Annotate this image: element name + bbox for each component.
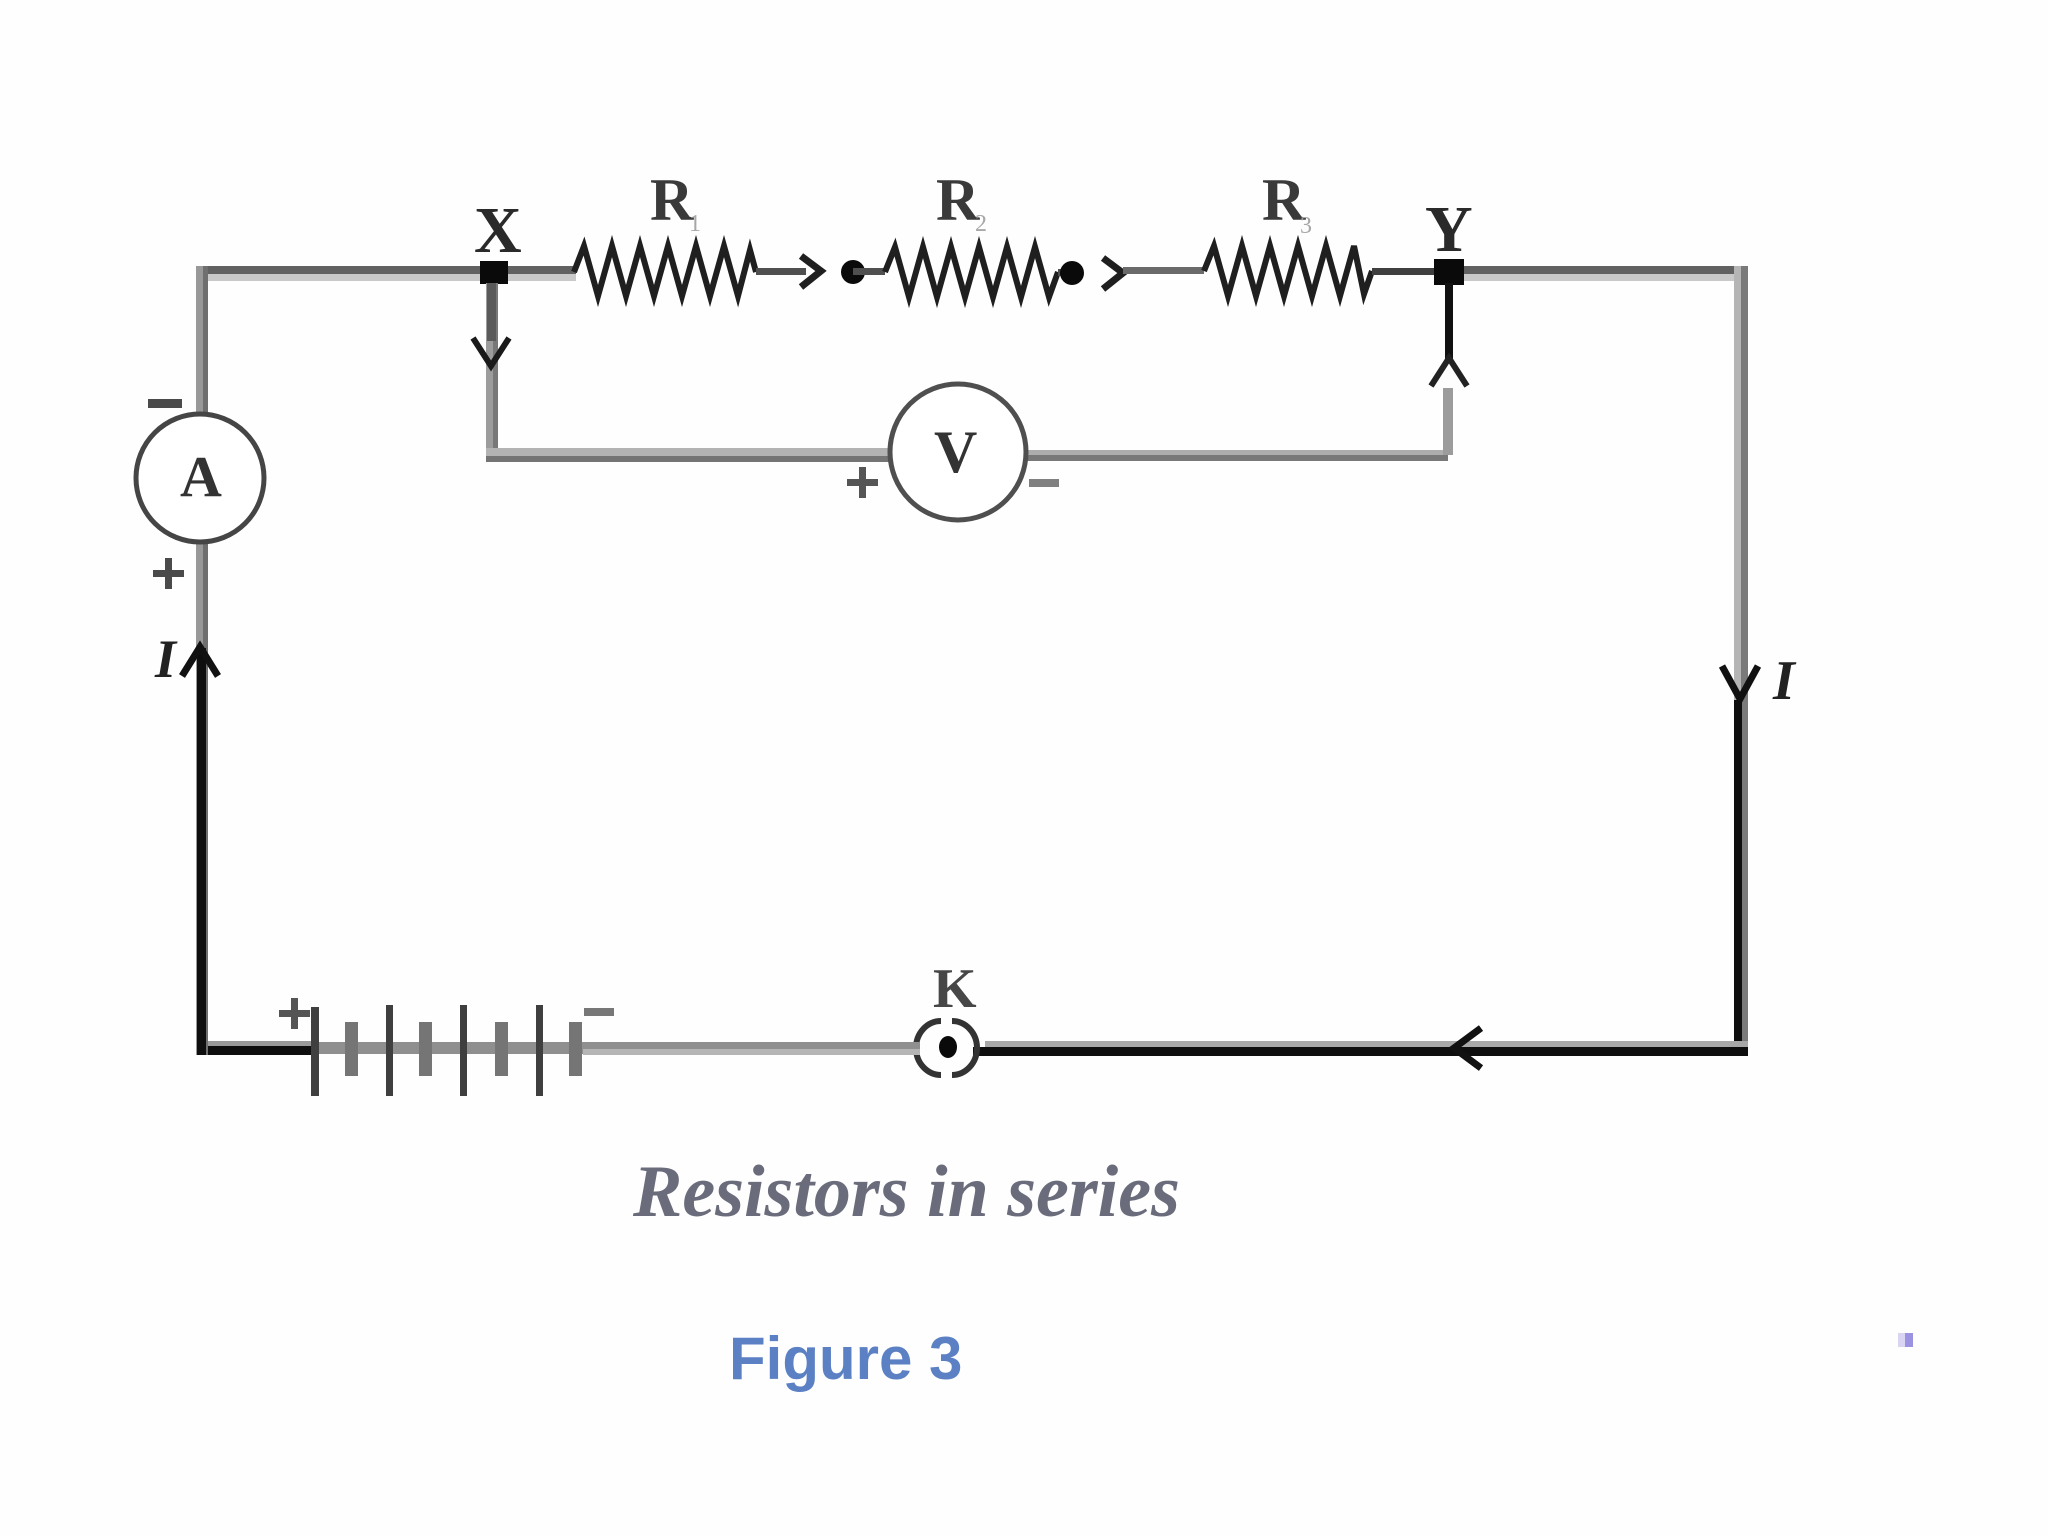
current arrow after R1 <box>801 256 821 287</box>
wire Y to top-right corner <box>1464 266 1748 281</box>
wire stub dot to R2 <box>853 268 885 275</box>
battery plus label <box>279 998 310 1029</box>
wire stub R2 to dot <box>1058 269 1074 276</box>
current arrow after R2 <box>1103 258 1123 289</box>
wire X drop dark upper segment <box>487 283 496 341</box>
svg-text:R: R <box>936 167 980 233</box>
wire X to R1 <box>500 266 576 281</box>
wire voltmeter horizontal left <box>486 448 893 462</box>
wire stub arrow to R3 <box>1123 267 1204 274</box>
ammeter minus label <box>148 399 182 408</box>
wire X drop vertical <box>486 283 498 453</box>
wire Y riser gray <box>1443 388 1453 455</box>
current line right vertical (black) <box>1734 700 1742 1055</box>
current line Y riser (black) <box>1445 283 1453 360</box>
svg-text:I: I <box>1772 650 1797 712</box>
key K symbol <box>916 1021 977 1075</box>
svg-text:V: V <box>934 419 977 485</box>
battery cell 4 long plate <box>536 1005 543 1096</box>
battery connector wire <box>311 1042 583 1054</box>
battery cell 3 short plate <box>495 1022 508 1076</box>
battery cell 4 short plate <box>569 1022 582 1076</box>
label R3 <box>1262 167 1312 239</box>
voltmeter minus label <box>1029 479 1059 487</box>
svg-text:Y: Y <box>1425 193 1473 266</box>
battery cell 1 long plate <box>311 1007 319 1096</box>
node X <box>480 261 508 284</box>
current arrow I down (right side) <box>1722 666 1758 699</box>
junction dot after R1 <box>841 260 865 284</box>
label R2 <box>936 167 987 237</box>
ammeter A <box>136 414 264 542</box>
ammeter plus label <box>153 558 184 589</box>
svg-text:A: A <box>180 444 222 509</box>
decorative purple mark <box>1898 1333 1913 1347</box>
current arrow I up (left side) <box>182 647 218 676</box>
battery cell 1 short plate <box>345 1022 358 1076</box>
battery minus label <box>584 1008 614 1016</box>
current line bottom right (black) <box>973 1047 1748 1056</box>
resistor R2 <box>885 247 1058 297</box>
current arrow left (bottom wire) <box>1454 1028 1481 1068</box>
svg-text:I: I <box>154 629 178 689</box>
wire stub R3 to Y <box>1372 268 1434 275</box>
battery cell 2 long plate <box>386 1005 393 1096</box>
voltmeter V <box>890 384 1026 520</box>
current arrow down (X drop) <box>473 338 509 366</box>
wire battery to K <box>583 1042 920 1055</box>
svg-text:1: 1 <box>689 211 701 237</box>
svg-text:X: X <box>474 194 522 267</box>
svg-text:3: 3 <box>1300 213 1312 239</box>
svg-text:K: K <box>933 958 977 1020</box>
resistor R1 <box>574 246 756 296</box>
wire left vertical <box>196 266 208 1055</box>
svg-text:2: 2 <box>975 211 987 237</box>
current line left vertical (black) <box>197 648 206 1055</box>
wire stub R1 to arrow <box>756 268 806 275</box>
svg-text:R: R <box>650 167 694 233</box>
voltmeter plus label <box>847 467 878 498</box>
wire bottom left (black) <box>196 1041 312 1055</box>
label R1 <box>650 167 701 237</box>
wire right vertical <box>1734 266 1748 1055</box>
battery cell 3 long plate <box>460 1005 467 1096</box>
node Y <box>1434 259 1464 285</box>
resistor R3 <box>1204 246 1372 296</box>
svg-text:Resistors in series: Resistors in series <box>632 1151 1180 1233</box>
junction dot after R2 <box>1060 261 1084 285</box>
svg-text:Figure 3: Figure 3 <box>729 1325 962 1392</box>
wire bottom right (gray shadow) <box>985 1041 1748 1047</box>
battery cell 2 short plate <box>419 1022 432 1076</box>
current arrow up (Y riser) <box>1431 358 1467 386</box>
wire top horizontal (corner to X) <box>196 266 486 281</box>
wire voltmeter horizontal right <box>1024 450 1448 461</box>
